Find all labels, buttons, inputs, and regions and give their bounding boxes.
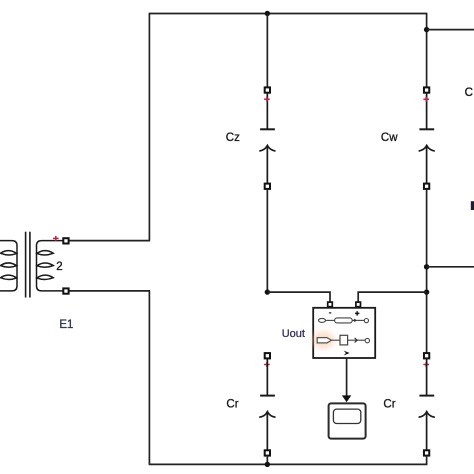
Uout output chevron xyxy=(344,351,350,356)
wire to right edge mid xyxy=(427,266,474,268)
port Cz top (+) xyxy=(265,87,270,92)
node junction right upper xyxy=(424,27,429,32)
port transformer top (+) xyxy=(63,238,68,243)
port Cw top (+) xyxy=(424,87,429,92)
port Uout right xyxy=(356,302,361,307)
orange highlight glow xyxy=(313,332,335,349)
wire right column top xyxy=(426,14,428,88)
voltage sensor block Uout xyxy=(313,308,375,358)
left winding lens 2 xyxy=(1,263,17,267)
wire Cr-left to bottom bus xyxy=(266,456,268,465)
Uout sensor row: wire right xyxy=(352,319,364,321)
svg-text:Cr: Cr xyxy=(226,399,238,411)
svg-text:Cw: Cw xyxy=(381,132,398,144)
wire left rail lower xyxy=(148,291,150,465)
capacitor Cr right xyxy=(419,358,434,450)
Uout sensor row: diamond xyxy=(353,319,357,322)
port Cr-left top (+) xyxy=(265,353,270,358)
port transformer bottom xyxy=(63,288,68,293)
node junction bottom xyxy=(265,462,270,467)
polarity + Cw xyxy=(423,97,429,102)
capacitor Cr left xyxy=(260,358,275,450)
Uout sensor row: wire xyxy=(326,319,335,321)
svg-text:2: 2 xyxy=(56,261,62,273)
wire bottom bus xyxy=(149,463,428,465)
capacitor Cz xyxy=(260,93,275,184)
wire Cr-right to bottom bus xyxy=(426,456,428,465)
polarity + Cz xyxy=(264,97,270,102)
port Cr-right bottom xyxy=(424,450,429,455)
clipped block right edge xyxy=(471,201,474,210)
Uout minus sign xyxy=(329,312,331,314)
node junction right mid1 xyxy=(424,264,429,269)
polarity + transformer xyxy=(53,236,59,241)
svg-text:Cr: Cr xyxy=(383,399,395,411)
transformer E1 xyxy=(0,232,64,298)
Uout plus sign xyxy=(355,311,359,315)
scope screen xyxy=(333,409,360,423)
left winding lens 3 xyxy=(1,275,17,279)
wire to right edge upper xyxy=(427,29,474,31)
Uout converter row: wire right xyxy=(348,339,365,341)
node junction mid-left xyxy=(265,289,270,294)
port Cr-left bottom xyxy=(265,450,270,455)
wire Uout left input xyxy=(267,292,330,302)
right winding outline xyxy=(37,241,65,291)
wire transformer bottom lead xyxy=(64,290,150,292)
signal wire to scope xyxy=(346,358,348,396)
wire Cz bottom to junction xyxy=(266,189,268,292)
Uout sensor row: body xyxy=(335,318,353,323)
left winding lens 1 xyxy=(1,251,17,255)
Uout sensor row: terminal circle xyxy=(364,319,368,323)
wire Cz top xyxy=(266,14,268,88)
right winding lens 1 xyxy=(37,251,54,255)
svg-text:E1: E1 xyxy=(59,319,73,331)
signal arrowhead xyxy=(342,395,351,402)
wire transformer top lead xyxy=(64,240,150,242)
Uout converter row: square xyxy=(340,335,348,345)
capacitor Cw xyxy=(419,93,434,184)
polarity + Cr-right xyxy=(423,362,429,367)
node junction right mid2 xyxy=(424,289,429,294)
Uout converter row: wire xyxy=(331,339,340,341)
svg-text:Uout: Uout xyxy=(282,328,305,340)
svg-text:C: C xyxy=(465,87,473,99)
wire right column middle xyxy=(426,189,428,353)
port Uout left xyxy=(328,302,333,307)
wire top bus xyxy=(149,13,428,15)
Uout converter row: tag shape xyxy=(317,338,331,343)
scope block xyxy=(329,403,366,438)
wire Uout right input xyxy=(358,292,426,302)
port Cz bottom xyxy=(265,184,270,189)
transformer core line right xyxy=(29,232,31,298)
polarity + Cr-left xyxy=(264,362,270,367)
node junction top (Cz branch) xyxy=(265,11,270,16)
Uout converter row: terminal circle xyxy=(365,338,369,342)
Uout sensor row: ellipse xyxy=(319,318,326,322)
wire left rail upper xyxy=(148,14,150,241)
svg-text:Cz: Cz xyxy=(226,132,240,144)
Uout converter row: arrow tick xyxy=(355,338,358,342)
left winding outline xyxy=(0,241,17,291)
right winding lens 3 xyxy=(37,275,54,279)
transformer core line left xyxy=(25,232,27,298)
port Cw bottom xyxy=(424,184,429,189)
port Cr-right top (+) xyxy=(424,353,429,358)
right winding lens 2 xyxy=(37,263,54,267)
